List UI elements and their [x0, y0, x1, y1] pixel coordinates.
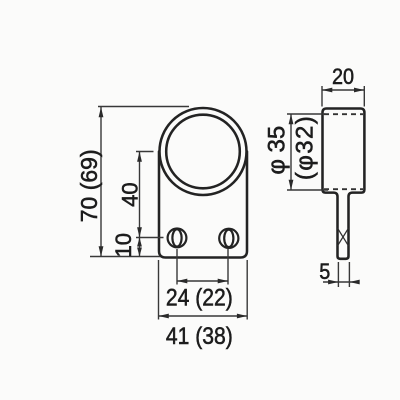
svg-text:10: 10 [111, 233, 136, 257]
svg-text:5: 5 [319, 260, 330, 284]
svg-text:40: 40 [118, 182, 143, 206]
svg-text:41 (38): 41 (38) [166, 323, 233, 350]
svg-text:(φ32): (φ32) [291, 115, 318, 180]
svg-text:70 (69): 70 (69) [76, 149, 102, 222]
svg-text:24 (22): 24 (22) [166, 284, 233, 311]
svg-text:φ 35: φ 35 [263, 126, 290, 175]
svg-text:20: 20 [332, 65, 354, 89]
